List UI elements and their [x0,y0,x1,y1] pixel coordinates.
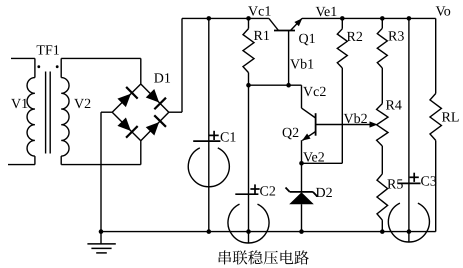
Q1 collector diagonal [269,18,279,30]
wire bridge left corner to ground rail [101,111,112,113]
resistor R1 [248,18,250,28]
wire V2 top to bridge top [61,57,141,59]
resistor R2 [341,18,343,28]
Q2 base wire to R4 wiper arrow [316,124,372,126]
bottom ground rail [101,231,436,233]
transformer TF1 primary winding V1 [11,57,35,59]
Q2 emitter lead down to Ve2 [301,140,303,163]
node dot R5 bottom [380,229,385,234]
svg-text:V2: V2 [74,97,91,112]
node dot C1 bottom [207,229,212,234]
svg-text:C2: C2 [260,185,276,200]
capacitor C3 [408,18,410,242]
top rail right segment (Q1 emitter to Vo corner) [302,17,436,19]
svg-text:V1: V1 [11,97,28,112]
svg-text:Vc1: Vc1 [248,5,271,20]
node dot Vb1 bottom [286,83,291,88]
transistor Q2 collector diagonal [302,108,316,118]
capacitor C2 [248,85,250,243]
svg-text:D1: D1 [154,72,171,87]
transformer core [45,72,47,154]
svg-text:Q2: Q2 [282,126,299,141]
bridge diode bottom-right [144,115,166,137]
node dot C3 bottom [407,229,412,234]
node dot ground left [99,229,104,234]
bridge diode top-right [144,87,166,109]
Q2 base bar [315,113,317,136]
node dot C1 top [207,16,212,21]
resistor R5 [377,174,388,220]
plus sign C1 [210,134,219,136]
svg-text:C3: C3 [421,175,437,190]
top rail left segment (to Q1 collector) [182,17,269,19]
node dot R3 top [380,16,385,21]
ground symbol [100,232,102,244]
zener diode D2 [301,163,303,192]
load resistor RL [435,18,437,93]
transformer secondary winding V2 [60,58,62,77]
plus sign C2 [250,188,259,190]
node dot R2 top [340,16,345,21]
svg-text:R5: R5 [387,178,403,193]
node dot R1 bottom [246,83,251,88]
svg-text:Vo: Vo [436,5,451,20]
R4-R5 lead [381,146,383,174]
svg-text:RL: RL [442,111,460,126]
node dot C2 bottom [246,229,251,234]
node dot C3 top [407,16,412,21]
wire Ve2 to R2 bottom [302,162,343,164]
svg-text:R3: R3 [388,30,404,45]
Q1 emitter diagonal with arrow [291,18,303,30]
svg-text:Vb1: Vb1 [290,58,314,73]
caption 串联稳压电路 [219,250,309,264]
wire bridge right corner to top rail [169,111,182,113]
svg-text:R4: R4 [386,99,402,114]
svg-text:Q1: Q1 [299,32,316,47]
bridge diode bottom-left [116,116,138,138]
phase dot primary [37,65,40,68]
svg-text:C1: C1 [220,131,236,146]
bridge diode top-left [116,87,138,109]
R3-R4 lead [381,68,383,104]
phase dot secondary [56,65,59,68]
capacitor C1 [208,18,210,231]
node dot Vc1 / R1 top [246,16,251,21]
wire Vc2 corner down to Q2 collector [301,85,303,108]
node dot D2 bottom [299,229,304,234]
svg-text:D2: D2 [316,186,333,201]
wire V2 bottom to bridge bottom corner [61,164,141,166]
wire R1 bottom to Vc2 corner [249,84,302,86]
Q1 base lead Vb1 [288,31,290,86]
node dot Ve2 [299,161,304,166]
bridge rectifier D1 diamond frame [112,84,141,112]
svg-text:TF1: TF1 [36,44,59,59]
resistor R3 [381,18,383,28]
plus sign C3 [410,176,419,178]
svg-text:R1: R1 [254,29,270,44]
svg-text:R2: R2 [347,30,363,45]
svg-text:Vc2: Vc2 [303,85,326,100]
Q2 emitter diagonal with arrow [302,132,315,141]
potentiometer R4 [377,104,388,146]
transistor Q1 base bar [274,30,295,32]
